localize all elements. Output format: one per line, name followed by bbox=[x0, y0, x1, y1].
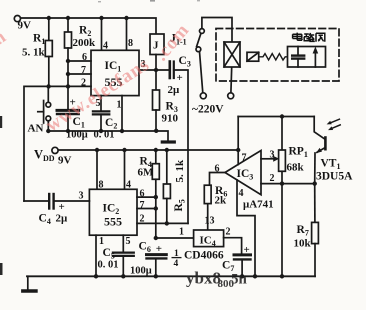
wire IC2 pin5 column bbox=[122, 235, 124, 252]
wire IC3 pin6 to R6 bbox=[210, 173, 226, 186]
svg-text:4: 4 bbox=[126, 180, 131, 191]
solenoid valve box bbox=[288, 47, 326, 68]
svg-text:7: 7 bbox=[140, 200, 145, 211]
wire IC1 pin6 bbox=[68, 60, 91, 62]
resistor R7 bbox=[312, 222, 319, 243]
svg-text:+: + bbox=[59, 201, 65, 213]
wire contact bottom to 220V terminal bbox=[200, 52, 203, 93]
svg-text:555: 555 bbox=[104, 215, 122, 229]
IC2 555 box bbox=[89, 189, 137, 235]
wire bottom ground bus bbox=[27, 275, 315, 277]
svg-text:6: 6 bbox=[215, 164, 220, 175]
wire ground stub right of mid bus bbox=[156, 131, 168, 141]
svg-text:13: 13 bbox=[205, 216, 215, 227]
resistor R4 bbox=[152, 164, 159, 180]
transformer coil X box bbox=[224, 42, 240, 67]
svg-text:10k: 10k bbox=[294, 238, 312, 250]
transistor VT1 phototransistor bbox=[314, 117, 325, 140]
contact J1-1 bbox=[200, 29, 205, 34]
op-amp IC3 triangle bbox=[225, 151, 261, 195]
svg-text:+: + bbox=[177, 72, 183, 84]
wire IC2 pin7 bbox=[137, 208, 156, 210]
svg-text:6: 6 bbox=[82, 52, 87, 63]
svg-text:ybx8: ybx8 bbox=[186, 269, 221, 288]
svg-text:5. 1k: 5. 1k bbox=[22, 47, 46, 59]
svg-text:2: 2 bbox=[81, 78, 86, 89]
label dianzifa solenoid valve chinese bbox=[293, 33, 325, 42]
wire IC2 pin6 bbox=[137, 196, 156, 198]
svg-text:2k: 2k bbox=[215, 195, 228, 207]
dashed enclosure solenoid bbox=[216, 29, 339, 82]
svg-text:5. 1k: 5. 1k bbox=[174, 159, 186, 183]
wire C5 bottom bbox=[122, 256, 124, 276]
wire IC1 pin2 line to left column bbox=[24, 86, 91, 201]
terminal 9V circle bbox=[14, 16, 20, 22]
wire R7 bottom bbox=[314, 244, 316, 277]
svg-text:4: 4 bbox=[103, 41, 108, 52]
wire IC1 pin3 line bbox=[139, 69, 170, 71]
svg-text:μA741: μA741 bbox=[243, 199, 274, 211]
svg-text:9V: 9V bbox=[18, 20, 32, 32]
svg-text:9V: 9V bbox=[58, 155, 72, 167]
wire IC2 pin4 column bbox=[124, 150, 126, 189]
wire C7 bottom bbox=[241, 259, 243, 276]
IC1 555 box bbox=[91, 50, 139, 95]
wire IC1 pin5 column bbox=[100, 96, 102, 111]
svg-text:5n: 5n bbox=[231, 272, 248, 288]
capacitor C7 electrolytic bbox=[234, 253, 251, 256]
svg-text:910: 910 bbox=[162, 113, 179, 125]
resistor R3 bbox=[153, 90, 160, 110]
wire C2 bottom bbox=[100, 114, 102, 131]
wire RP1 wiper arrow from pin3 bbox=[261, 158, 274, 160]
valve arrow bbox=[314, 51, 316, 67]
wire top rail 9V bbox=[21, 18, 157, 34]
wire R4 column top bbox=[155, 150, 157, 164]
watermark elecfans pink diagonal bbox=[0, 20, 194, 136]
wire IC3 pin4 route to bus bbox=[237, 180, 255, 276]
valve cap symbol bbox=[297, 47, 299, 56]
svg-text:68k: 68k bbox=[287, 162, 305, 174]
svg-text:6: 6 bbox=[140, 189, 145, 200]
glyph ci bbox=[304, 33, 315, 41]
wire C4 to IC2 pin3 bbox=[54, 200, 90, 202]
wire IC3 pin2 line bbox=[261, 183, 315, 185]
svg-text:4: 4 bbox=[239, 188, 244, 199]
wire R7 column bbox=[314, 184, 316, 223]
svg-text:~220V: ~220V bbox=[192, 104, 224, 116]
wire IC1 pin8 column bbox=[126, 18, 128, 50]
resistor R6 bbox=[204, 185, 211, 203]
wire X-box bottom to right terminal bbox=[230, 67, 233, 93]
wire IC1 pin1 column bbox=[121, 96, 123, 131]
capacitor C6 electrolytic bbox=[147, 253, 167, 256]
wire C6 bottom bbox=[155, 258, 157, 276]
wire R3 bottom bbox=[155, 110, 157, 131]
ground symbol bottom left bbox=[27, 276, 29, 289]
svg-text:1: 1 bbox=[117, 100, 122, 111]
wire RP1 top column bbox=[281, 117, 283, 151]
fraction bar 1/4 bbox=[172, 257, 182, 259]
wire IC4 pin2 to C7 bbox=[224, 238, 242, 254]
glyph fa bbox=[316, 33, 325, 42]
svg-text:7: 7 bbox=[81, 65, 86, 76]
svg-text:100μ: 100μ bbox=[130, 266, 152, 277]
wire C1 bottom bbox=[67, 114, 69, 131]
wire R3 column bbox=[155, 70, 157, 90]
svg-text:100μ: 100μ bbox=[66, 130, 88, 141]
svg-text:8: 8 bbox=[128, 38, 133, 49]
capacitor C5 bbox=[113, 252, 134, 254]
wire VDD line bbox=[58, 149, 238, 151]
relay coil J box bbox=[150, 34, 164, 55]
ground symbol mid bbox=[162, 140, 174, 143]
svg-text:2μ: 2μ bbox=[56, 213, 69, 225]
svg-text:1: 1 bbox=[99, 236, 104, 247]
capacitor C1 electrolytic bbox=[57, 109, 79, 112]
svg-text:5: 5 bbox=[126, 236, 131, 247]
svg-text:2μ: 2μ bbox=[168, 84, 181, 96]
svg-text:+: + bbox=[156, 243, 162, 255]
resistor R1 bbox=[45, 41, 52, 57]
wire AN bottom bbox=[47, 121, 49, 131]
wire C3 right to long vertical down bbox=[174, 70, 188, 223]
potentiometer RP1 bbox=[279, 150, 286, 171]
svg-text:3DU5A: 3DU5A bbox=[316, 171, 353, 183]
svg-text:4: 4 bbox=[174, 259, 179, 269]
wire IC1 pin7 bbox=[68, 73, 91, 75]
svg-text:3: 3 bbox=[79, 191, 84, 202]
wire R6 pin13 column bbox=[207, 204, 209, 230]
wire IC2 pin2 bbox=[137, 222, 188, 224]
terminal 220V right bbox=[228, 93, 234, 99]
svg-text:CD4066: CD4066 bbox=[184, 250, 224, 262]
terminal 220V left bbox=[200, 93, 206, 99]
IC4 box bbox=[194, 230, 224, 247]
wire IC2 pin8 column bbox=[96, 150, 98, 189]
terminal VDD circle bbox=[52, 147, 58, 153]
wire R2 bottom through pins 6,7,2 to C1 bbox=[67, 48, 69, 110]
spring link bbox=[259, 54, 288, 60]
scan edge artifacts bbox=[0, 0, 200, 275]
svg-text:3: 3 bbox=[270, 150, 275, 161]
wire IC2 pin1 column bbox=[95, 235, 97, 276]
svg-text:0. 01: 0. 01 bbox=[94, 130, 115, 141]
wire R4 bottom through pin6,7 node down to C6 node bbox=[155, 179, 157, 238]
svg-text:+: + bbox=[244, 244, 250, 256]
svg-text:2: 2 bbox=[270, 173, 275, 184]
svg-text:6M: 6M bbox=[138, 167, 155, 179]
watermark ybx8005n bbox=[186, 269, 248, 291]
svg-text:8: 8 bbox=[99, 180, 104, 191]
armature box with diagonal bbox=[247, 52, 259, 61]
wire IC3 pin7 column bbox=[237, 117, 239, 165]
wire R2 column top bbox=[67, 18, 69, 32]
svg-text:1: 1 bbox=[179, 227, 184, 238]
wire J coil bottom to pin3 node bbox=[155, 55, 157, 71]
capacitor C2 bbox=[93, 110, 109, 112]
glyph dian bbox=[293, 33, 302, 41]
wire mid ground bus bbox=[48, 130, 156, 132]
wire contact top to rail segment bbox=[202, 18, 232, 43]
svg-text:0. 01: 0. 01 bbox=[98, 260, 119, 271]
svg-text:2: 2 bbox=[140, 214, 145, 225]
capacitor C3 electrolytic bbox=[169, 62, 172, 79]
resistor R5 bbox=[163, 184, 170, 199]
wire R1 column top bbox=[48, 18, 50, 41]
pushbutton AN bbox=[46, 102, 51, 107]
svg-text:7: 7 bbox=[242, 153, 247, 164]
light arrows bbox=[331, 119, 340, 123]
wire RP1 bottom column to bus bbox=[281, 171, 283, 276]
resistor R2 bbox=[65, 32, 72, 48]
svg-text:AN: AN bbox=[28, 123, 44, 135]
wire C6 node to IC4 pin1 bbox=[156, 237, 194, 239]
wire R1 bottom to node bbox=[48, 57, 50, 87]
wire top supply line to VT1 bbox=[238, 116, 314, 118]
wire AN button top bbox=[47, 86, 49, 102]
wire R5 column top bbox=[166, 150, 168, 184]
wire R5 bottom bbox=[166, 199, 168, 224]
svg-text:2: 2 bbox=[226, 227, 231, 238]
svg-text:200k: 200k bbox=[73, 37, 97, 49]
wire IC1 pin4 column bbox=[101, 18, 103, 50]
capacitor C4 bbox=[24, 200, 49, 202]
